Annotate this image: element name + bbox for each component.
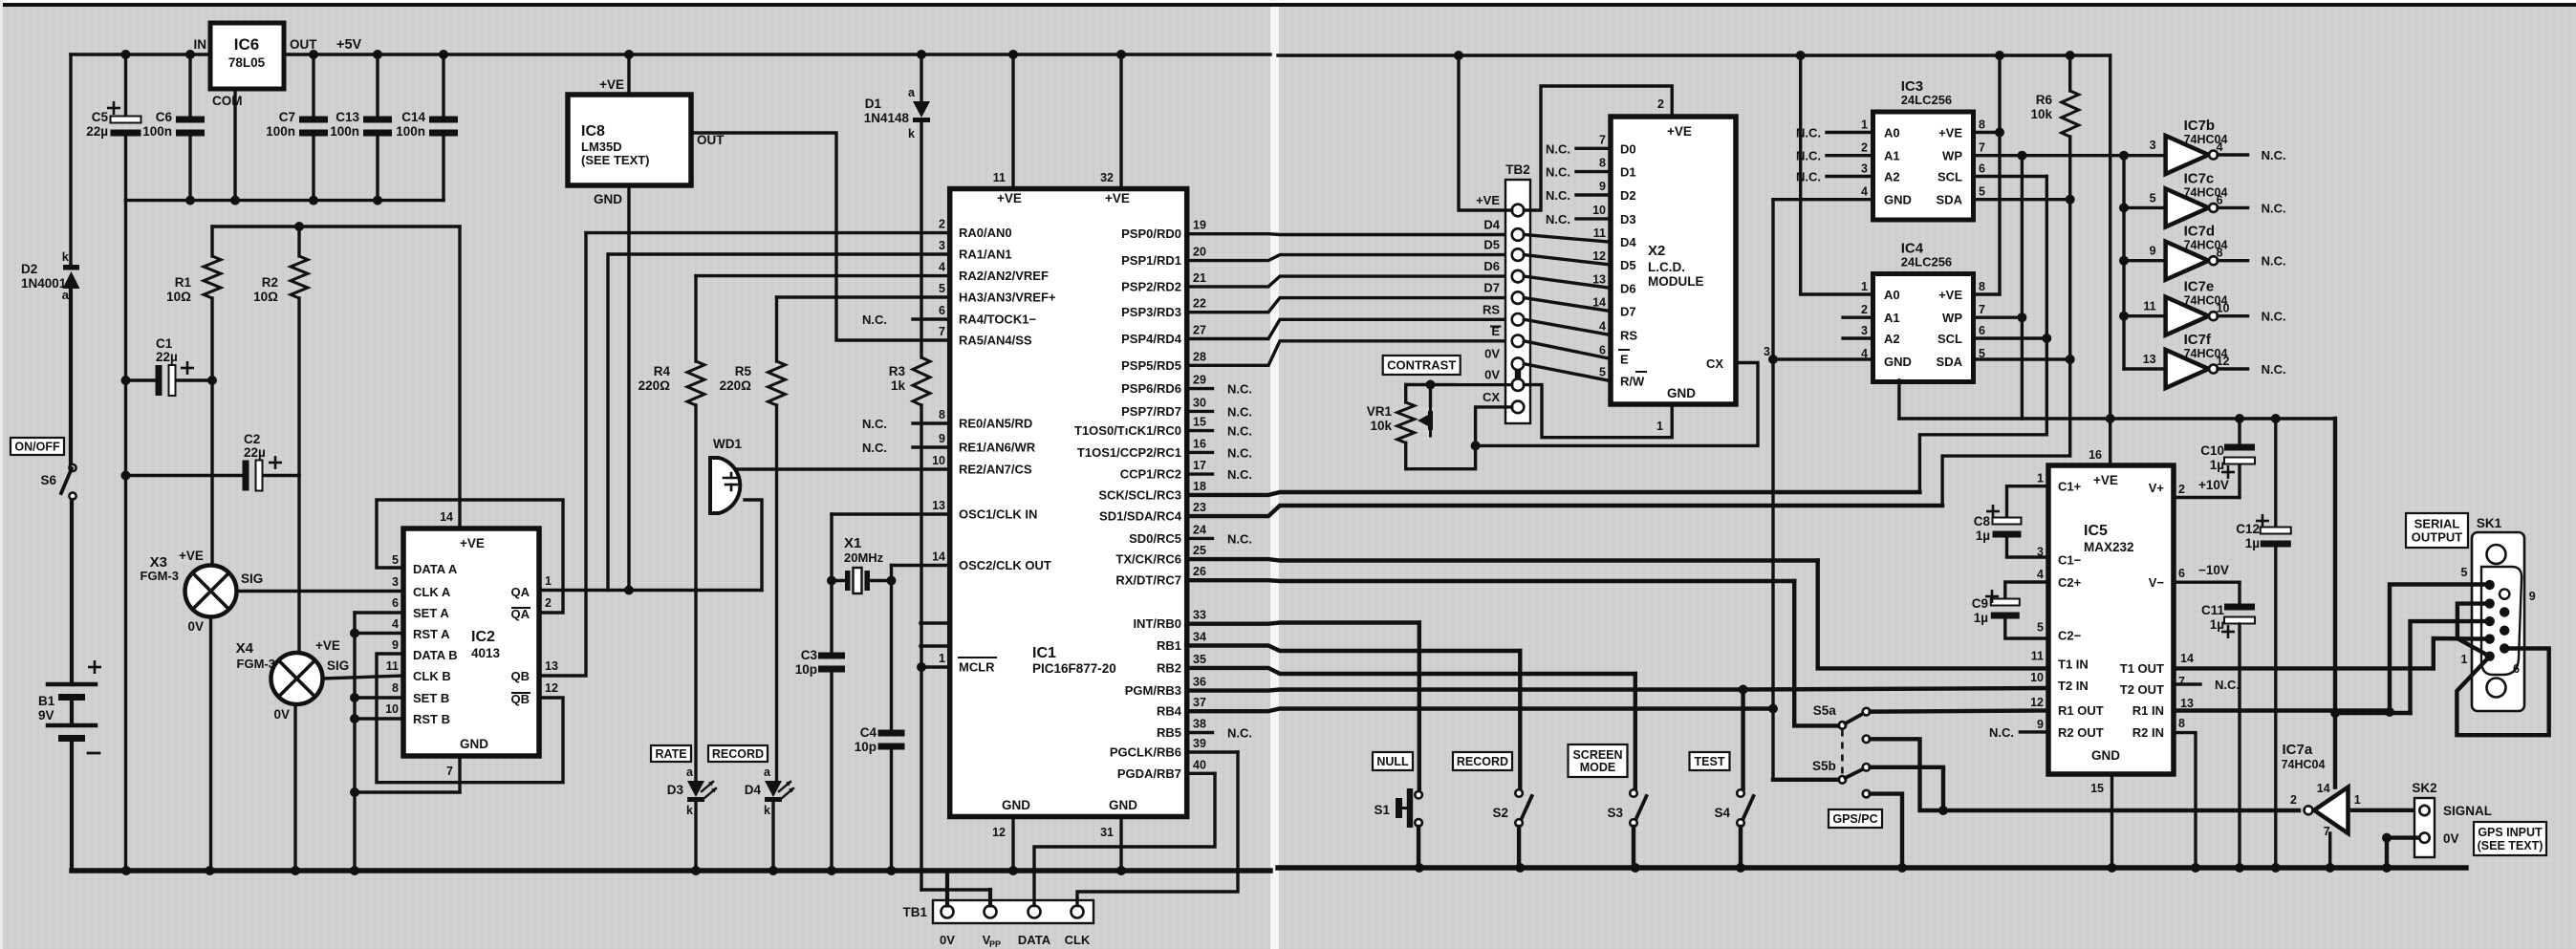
- wire QA to RA1: [606, 254, 609, 591]
- svg-text:C6: C6: [156, 110, 173, 124]
- svg-text:PSP1/RD1: PSP1/RD1: [1121, 253, 1181, 268]
- pin RA4 n.c.: [913, 317, 950, 320]
- wire bus RB3: [1187, 690, 1743, 691]
- inverter IC7e 74HC04: [2166, 297, 2209, 335]
- connector SK1 DB9: [2472, 532, 2524, 711]
- wire WP line: [1974, 154, 2166, 157]
- svg-text:(SEE TEXT): (SEE TEXT): [581, 153, 650, 167]
- svg-text:27: 27: [1193, 324, 1206, 337]
- svg-text:10: 10: [1592, 204, 1606, 217]
- svg-text:VR1: VR1: [1367, 404, 1393, 419]
- svg-text:21: 21: [1193, 271, 1206, 285]
- svg-text:N.C.: N.C.: [1227, 404, 1252, 419]
- svg-text:22µ: 22µ: [86, 124, 108, 139]
- svg-text:1µ: 1µ: [1974, 611, 1988, 625]
- svg-text:9: 9: [2150, 245, 2156, 258]
- svg-text:30: 30: [1193, 396, 1206, 409]
- LCD module X2: [1611, 117, 1736, 404]
- resistor R1 10R: [210, 226, 213, 256]
- svg-text:10: 10: [932, 454, 945, 467]
- svg-text:DATA B: DATA B: [413, 648, 458, 662]
- wire TB2-D7 to X2: [1524, 298, 1611, 312]
- wire inverter input bus: [2122, 156, 2125, 369]
- svg-text:DATA: DATA: [1018, 933, 1051, 947]
- svg-text:IC7f: IC7f: [2184, 332, 2212, 348]
- capacitor C11 1u: [2174, 581, 2240, 584]
- capacitor C4 10p: [878, 730, 905, 737]
- svg-text:+VE: +VE: [2093, 473, 2118, 487]
- svg-text:PSP6/RD6: PSP6/RD6: [1121, 381, 1181, 396]
- svg-text:IC7c: IC7c: [2184, 170, 2215, 186]
- svg-text:17: 17: [1193, 459, 1206, 472]
- svg-text:0V: 0V: [940, 933, 955, 947]
- svg-text:D4: D4: [745, 783, 762, 797]
- svg-text:QA: QA: [511, 607, 530, 621]
- svg-text:RECORD: RECORD: [712, 747, 764, 761]
- svg-text:TB1: TB1: [902, 905, 927, 919]
- svg-text:TB2: TB2: [1505, 162, 1530, 177]
- svg-text:SIG: SIG: [241, 572, 263, 586]
- svg-text:C3: C3: [801, 648, 818, 662]
- svg-text:IC7e: IC7e: [2184, 279, 2215, 295]
- svg-text:3: 3: [1861, 162, 1868, 176]
- svg-text:74HC04: 74HC04: [2184, 239, 2228, 252]
- svg-text:S3: S3: [1607, 806, 1623, 820]
- svg-text:N.C.: N.C.: [1546, 188, 1570, 203]
- svg-text:PSP3/RD3: PSP3/RD3: [1121, 305, 1181, 319]
- svg-text:74HC04: 74HC04: [2184, 185, 2228, 199]
- svg-text:9: 9: [2037, 718, 2044, 731]
- svg-text:IC7d: IC7d: [2184, 224, 2216, 240]
- svg-text:1µ: 1µ: [2210, 458, 2224, 472]
- svg-text:N.C.: N.C.: [1227, 382, 1252, 397]
- svg-text:D5: D5: [1620, 258, 1636, 272]
- svg-text:CLK A: CLK A: [413, 585, 451, 599]
- svg-text:IC5: IC5: [2084, 523, 2108, 539]
- svg-text:+VE: +VE: [179, 549, 204, 563]
- capacitor C9 1u: [2005, 582, 2048, 602]
- svg-text:1: 1: [2354, 793, 2361, 807]
- svg-text:CCP1/RC2: CCP1/RC2: [1120, 467, 1181, 482]
- svg-text:+VE: +VE: [460, 536, 485, 550]
- page left margin: [0, 0, 3, 949]
- wire IC5 GND pin15: [2111, 774, 2113, 868]
- svg-text:SD1/SDA/RC4: SD1/SDA/RC4: [1099, 509, 1182, 524]
- svg-text:N.C.: N.C.: [2262, 148, 2286, 162]
- wire RA2 line to R4: [696, 274, 950, 277]
- svg-text:12: 12: [545, 681, 558, 695]
- wire bus RB4: [1187, 709, 1773, 712]
- svg-text:MODE: MODE: [1580, 761, 1616, 774]
- svg-text:WP: WP: [1942, 311, 1962, 325]
- svg-text:RECORD: RECORD: [1457, 755, 1508, 768]
- svg-text:TX/CK/RC6: TX/CK/RC6: [1115, 552, 1181, 567]
- svg-text:D2: D2: [1620, 188, 1636, 203]
- wire battery branch: [69, 54, 72, 265]
- flip-flop IC2 4013: [403, 528, 539, 756]
- svg-text:74HC04: 74HC04: [2184, 133, 2228, 146]
- svg-text:7: 7: [1979, 303, 1985, 316]
- capacitor C13 100n: [376, 54, 379, 119]
- svg-text:RST A: RST A: [413, 627, 450, 641]
- svg-text:C2: C2: [244, 432, 260, 446]
- wire bus D5: [1187, 255, 1511, 261]
- svg-text:0V: 0V: [1484, 347, 1500, 361]
- svg-text:COM: COM: [212, 94, 243, 108]
- svg-text:RE2/AN7/CS: RE2/AN7/CS: [959, 463, 1032, 477]
- svg-text:N.C.: N.C.: [1227, 467, 1252, 482]
- svg-text:1: 1: [1861, 119, 1868, 132]
- svg-text:1N4001: 1N4001: [21, 276, 67, 291]
- svg-text:C2+: C2+: [2058, 575, 2082, 590]
- svg-text:+VE: +VE: [315, 638, 340, 653]
- svg-text:1: 1: [2461, 653, 2468, 666]
- svg-text:R2: R2: [262, 275, 278, 290]
- svg-text:T1 IN: T1 IN: [2058, 658, 2089, 672]
- svg-text:32: 32: [1100, 171, 1114, 184]
- svg-text:N.C.: N.C.: [1989, 725, 2014, 740]
- wire IC4 WP stub: [1974, 316, 2023, 319]
- svg-text:6: 6: [1979, 162, 1985, 176]
- label RECORD: [1453, 752, 1512, 770]
- label GPS/PC: [1829, 809, 1882, 828]
- svg-text:37: 37: [1193, 696, 1206, 709]
- svg-text:29: 29: [1193, 374, 1206, 387]
- svg-text:RATE: RATE: [655, 747, 686, 761]
- svg-text:SCL: SCL: [1937, 170, 1962, 184]
- svg-text:T2 OUT: T2 OUT: [2120, 682, 2164, 697]
- svg-text:RX/DT/RC7: RX/DT/RC7: [1115, 573, 1181, 588]
- wire IC7a gnd: [2328, 833, 2331, 868]
- wire T1OUT to DB9: [2174, 666, 2434, 670]
- wire bus D4: [1187, 232, 1511, 236]
- wire IC4 A1 A2 stubs: [1843, 316, 1873, 319]
- wire R2IN tie: [2174, 733, 2196, 868]
- svg-text:1µ: 1µ: [2245, 536, 2260, 550]
- svg-text:CX: CX: [1706, 356, 1723, 371]
- svg-text:D1: D1: [1620, 165, 1636, 180]
- regulator IC6 78L05: [210, 23, 284, 89]
- wire IC4 A0 +VE: [1801, 55, 1873, 294]
- wire bus D7: [1187, 298, 1511, 313]
- pin R2OUT n.c.: [2020, 730, 2048, 733]
- svg-text:C12: C12: [2236, 522, 2260, 536]
- svg-text:PSP2/RD2: PSP2/RD2: [1121, 279, 1181, 293]
- wire Vpp link: [921, 888, 990, 891]
- svg-text:DATA A: DATA A: [413, 562, 458, 576]
- svg-text:11: 11: [2143, 300, 2155, 313]
- svg-text:RE0/AN5/RD: RE0/AN5/RD: [959, 417, 1032, 431]
- wire bus TX: [1187, 559, 1818, 560]
- svg-text:4: 4: [1599, 320, 1606, 334]
- label NULL: [1373, 752, 1413, 770]
- svg-text:T2 IN: T2 IN: [2058, 679, 2089, 693]
- VR1 wiper: [1429, 385, 1432, 407]
- label RATE: [651, 745, 691, 762]
- svg-text:C5: C5: [92, 110, 109, 124]
- svg-text:6: 6: [2178, 567, 2185, 580]
- svg-text:C1: C1: [156, 336, 173, 351]
- wire TB2-D6 to X2: [1524, 276, 1611, 288]
- wire IC5 +VE pin16: [2109, 419, 2111, 465]
- wire bus RB1: [1187, 646, 1521, 652]
- svg-text:OSC2/CLK OUT: OSC2/CLK OUT: [959, 558, 1051, 572]
- svg-text:RST B: RST B: [413, 712, 450, 726]
- svg-text:SD0/RC5: SD0/RC5: [1129, 531, 1181, 546]
- svg-text:D6: D6: [1483, 259, 1500, 273]
- eeprom IC4 24LC256: [1873, 274, 1974, 382]
- svg-text:34: 34: [1193, 631, 1206, 644]
- svg-text:D4: D4: [1483, 218, 1500, 232]
- svg-text:33: 33: [1193, 609, 1206, 622]
- svg-text:74HC04: 74HC04: [2184, 294, 2228, 308]
- wire OSC1 line: [832, 512, 950, 515]
- svg-text:RE1/AN6/WR: RE1/AN6/WR: [959, 441, 1036, 455]
- svg-text:13: 13: [2180, 697, 2194, 710]
- svg-text:RA0/AN0: RA0/AN0: [959, 226, 1012, 240]
- wire IC8 +VE: [627, 54, 630, 95]
- diode D1 1N4148: [920, 54, 922, 101]
- svg-text:D3: D3: [667, 783, 684, 797]
- svg-text:INT/RB0: INT/RB0: [1133, 616, 1181, 631]
- svg-text:10k: 10k: [2030, 107, 2052, 121]
- svg-text:74HC04: 74HC04: [2282, 758, 2326, 771]
- wire VR1 bottom to CX: [1406, 407, 1512, 469]
- svg-text:D7: D7: [1483, 281, 1500, 295]
- svg-text:2: 2: [939, 218, 945, 231]
- svg-text:7: 7: [2178, 675, 2185, 688]
- svg-text:220Ω: 220Ω: [639, 378, 671, 393]
- svg-text:R1 IN: R1 IN: [2132, 703, 2164, 718]
- svg-text:IC7a: IC7a: [2283, 742, 2313, 758]
- svg-text:L.C.D.: L.C.D.: [1648, 260, 1685, 274]
- switch S1 NULL: [1415, 791, 1422, 799]
- svg-text:GND: GND: [1884, 355, 1912, 369]
- svg-text:10: 10: [385, 702, 399, 716]
- inverter IC7f 74HC04: [2166, 350, 2209, 388]
- wire X2 CX pin3: [1476, 363, 1758, 446]
- svg-text:10Ω: 10Ω: [253, 290, 278, 304]
- svg-text:2: 2: [2290, 793, 2297, 807]
- svg-text:D7: D7: [1620, 305, 1636, 319]
- svg-text:14: 14: [2317, 782, 2330, 795]
- connector TB2: [1505, 180, 1530, 423]
- svg-text:RA2/AN2/VREF: RA2/AN2/VREF: [959, 269, 1049, 283]
- svg-text:D3: D3: [1620, 212, 1636, 226]
- svg-text:R2 OUT: R2 OUT: [2058, 725, 2104, 740]
- svg-text:14: 14: [2180, 652, 2194, 665]
- svg-text:PP: PP: [989, 939, 1001, 949]
- svg-text:+VE: +VE: [1938, 288, 1962, 302]
- svg-text:IN: IN: [194, 37, 207, 52]
- svg-text:5: 5: [1599, 366, 1606, 379]
- svg-text:R1: R1: [175, 275, 192, 290]
- svg-text:FGM-3: FGM-3: [237, 657, 275, 671]
- svg-text:IC7b: IC7b: [2184, 118, 2216, 134]
- svg-text:N.C.: N.C.: [1546, 212, 1570, 226]
- svg-text:10Ω: 10Ω: [166, 290, 191, 304]
- svg-text:PGCLK/RB6: PGCLK/RB6: [1110, 745, 1181, 760]
- svg-text:+5V: +5V: [336, 37, 362, 53]
- svg-text:C1−: C1−: [2058, 553, 2082, 568]
- svg-text:N.C.: N.C.: [1546, 165, 1570, 180]
- switch S3 SCREEN MODE: [1630, 789, 1637, 797]
- svg-text:RB5: RB5: [1157, 725, 1181, 740]
- svg-text:MCLR: MCLR: [959, 660, 995, 675]
- wire +VE loop to pin5 node: [2335, 711, 2411, 715]
- svg-text:A2: A2: [1884, 170, 1900, 184]
- svg-text:V−: V−: [2149, 575, 2165, 590]
- capacitor C3 10p: [818, 653, 845, 659]
- svg-text:26: 26: [1193, 565, 1206, 578]
- svg-text:RB1: RB1: [1157, 638, 1181, 653]
- wire TX to T1IN: [1818, 561, 2048, 669]
- switch S4 TEST: [1737, 789, 1744, 797]
- svg-text:D1: D1: [865, 97, 882, 111]
- capacitor C5 22u: [124, 54, 127, 119]
- svg-text:k: k: [686, 804, 693, 817]
- svg-text:CLK: CLK: [1065, 933, 1091, 947]
- svg-text:1N4148: 1N4148: [864, 111, 910, 125]
- wire S5b common drop: [1773, 778, 1838, 782]
- svg-text:GND: GND: [1002, 798, 1030, 812]
- svg-text:13: 13: [932, 499, 945, 512]
- node rail junctions: [121, 50, 131, 59]
- capacitor C10 1u: [2238, 419, 2240, 443]
- svg-text:78L05: 78L05: [228, 55, 266, 70]
- svg-text:6: 6: [1979, 324, 1985, 337]
- wire S5a low throw to IC7a out: [1871, 739, 2299, 810]
- wire RA3 line to R5: [777, 295, 950, 298]
- wire RB6 stub: [1187, 750, 1238, 753]
- wire S1 drop: [1418, 623, 1421, 791]
- svg-text:A0: A0: [1884, 126, 1900, 140]
- svg-text:k: k: [908, 127, 915, 140]
- resistor R3 1k: [913, 357, 930, 405]
- svg-text:PSP4/RD4: PSP4/RD4: [1121, 332, 1182, 346]
- wire IC2 +VE pin14: [458, 226, 461, 528]
- svg-text:N.C.: N.C.: [862, 313, 887, 327]
- svg-text:RA4/TOCK1−: RA4/TOCK1−: [959, 313, 1036, 327]
- svg-text:SCK/SCL/RC3: SCK/SCL/RC3: [1098, 487, 1181, 502]
- svg-text:C14: C14: [401, 110, 425, 124]
- svg-text:HA3/AN3/VREF+: HA3/AN3/VREF+: [959, 291, 1056, 305]
- svg-text:C11: C11: [2201, 603, 2225, 617]
- svg-text:7: 7: [446, 765, 453, 778]
- svg-text:18: 18: [1193, 480, 1206, 493]
- svg-text:N.C.: N.C.: [2262, 254, 2286, 269]
- wire IC8 GND: [627, 185, 630, 591]
- label SCREEN MODE: [1569, 744, 1628, 777]
- svg-text:R4: R4: [654, 364, 671, 378]
- wire S5a up throw to R1OUT: [1871, 711, 2048, 712]
- svg-text:+VE: +VE: [997, 191, 1022, 205]
- svg-text:a: a: [908, 86, 916, 99]
- capacitor C6 100n: [188, 54, 191, 119]
- svg-text:1: 1: [939, 652, 945, 665]
- inverter IC7d 74HC04: [2166, 242, 2209, 280]
- svg-text:R/W: R/W: [1620, 375, 1645, 389]
- inverter IC7a 74HC04: [2314, 787, 2349, 833]
- svg-text:C13: C13: [336, 110, 359, 124]
- svg-text:IC6: IC6: [234, 35, 259, 54]
- wire TB2-RS to X2: [1524, 319, 1611, 334]
- wire TB2 +VE to X2 pin2: [1524, 86, 1672, 210]
- svg-text:X2: X2: [1648, 243, 1665, 259]
- wire IC1 GND pins: [1011, 817, 1014, 872]
- svg-text:D5: D5: [1483, 238, 1500, 252]
- svg-text:+VE: +VE: [1667, 124, 1692, 139]
- svg-text:3: 3: [1764, 345, 1770, 358]
- svg-text:GND: GND: [1884, 193, 1912, 207]
- wire TB2-E to X2: [1524, 341, 1611, 359]
- svg-text:PSP5/RD5: PSP5/RD5: [1121, 358, 1181, 373]
- wire IC7a power: [2333, 419, 2337, 787]
- svg-text:12: 12: [992, 826, 1006, 839]
- svg-text:GND: GND: [1667, 386, 1696, 400]
- svg-text:SCL: SCL: [1937, 332, 1962, 346]
- svg-text:7: 7: [1979, 141, 1985, 155]
- svg-text:4: 4: [392, 617, 399, 631]
- svg-text:7: 7: [1599, 133, 1606, 146]
- svg-text:SET B: SET B: [413, 691, 449, 705]
- svg-text:3: 3: [2150, 139, 2156, 152]
- svg-text:GND: GND: [460, 737, 488, 751]
- svg-text:22: 22: [1193, 297, 1206, 311]
- svg-text:V+: V+: [2149, 481, 2165, 495]
- svg-text:8: 8: [1599, 157, 1606, 170]
- svg-text:k: k: [764, 804, 770, 817]
- wire SK2 0V: [2387, 835, 2418, 839]
- svg-text:R6: R6: [2036, 93, 2053, 107]
- svg-text:C10: C10: [2200, 443, 2224, 458]
- svg-text:E: E: [1620, 352, 1629, 366]
- svg-text:2: 2: [2178, 483, 2185, 496]
- svg-text:8: 8: [2178, 717, 2185, 730]
- svg-text:N.C.: N.C.: [1227, 445, 1252, 460]
- svg-text:MODULE: MODULE: [1648, 274, 1704, 289]
- svg-text:12: 12: [2030, 696, 2044, 709]
- svg-text:+VE: +VE: [599, 77, 624, 92]
- svg-text:5: 5: [939, 282, 945, 295]
- svg-text:9: 9: [2529, 590, 2536, 603]
- svg-text:QA: QA: [511, 585, 530, 599]
- svg-text:10p: 10p: [795, 662, 817, 677]
- diode D2 1N4001: [63, 265, 79, 270]
- svg-text:OSC1/CLK IN: OSC1/CLK IN: [959, 507, 1037, 522]
- capacitor C1 22u: [126, 378, 156, 381]
- wire bus INT: [1187, 623, 1419, 624]
- svg-text:7: 7: [939, 325, 945, 338]
- resistor R6 10k: [2062, 91, 2079, 137]
- wire TB2-D4 to X2: [1524, 235, 1611, 243]
- svg-text:R3: R3: [889, 364, 906, 378]
- svg-text:ON/OFF: ON/OFF: [14, 441, 60, 454]
- label SERIAL OUTPUT: [2406, 513, 2468, 548]
- temp sensor IC8 LM35D: [568, 95, 691, 185]
- svg-text:C7: C7: [279, 110, 295, 124]
- svg-text:N.C.: N.C.: [2262, 310, 2286, 324]
- svg-text:A2: A2: [1884, 332, 1900, 346]
- inverter IC7c 74HC04: [2166, 188, 2209, 226]
- svg-text:11: 11: [1593, 226, 1606, 240]
- svg-text:40: 40: [1193, 758, 1206, 771]
- svg-text:6: 6: [392, 596, 399, 610]
- svg-text:S2: S2: [1492, 806, 1508, 820]
- svg-text:14: 14: [440, 510, 453, 524]
- wire bus RX: [1187, 578, 1795, 583]
- svg-text:SERIAL: SERIAL: [2414, 517, 2460, 531]
